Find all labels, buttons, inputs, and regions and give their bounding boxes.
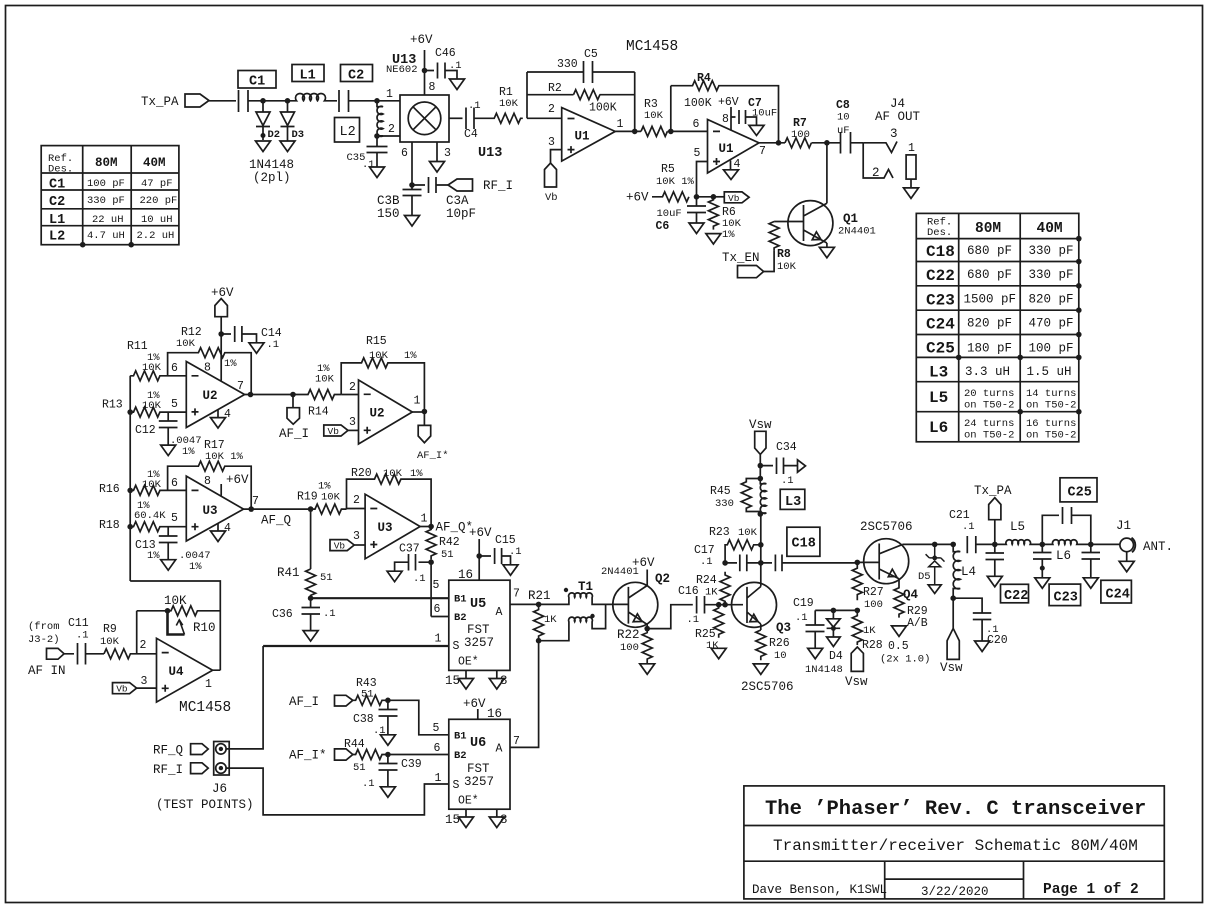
capacitor C22 [986,544,1005,576]
net Vb pointer at U1a [545,163,558,204]
svg-text:R4: R4 [697,72,711,85]
capacitor C46 [425,47,462,79]
resistor R43 [353,677,386,705]
net AF_I* pointer [417,412,449,463]
transformer T1 secondary [539,604,606,640]
svg-text:330 pF: 330 pF [87,195,125,207]
svg-text:6: 6 [434,603,441,616]
svg-text:1K: 1K [705,587,718,599]
svg-text:820 pF: 820 pF [967,317,1012,331]
capacitor C2 [339,90,377,112]
svg-text:Vb: Vb [334,541,346,552]
capacitor C5 value 330 [557,48,635,83]
svg-text:ANT.: ANT. [1143,540,1173,554]
op-amp U3 first half [171,476,259,541]
svg-text:C4: C4 [464,128,478,141]
wire AF_Q* column to U5 B2 [430,562,432,616]
svg-text:10uF: 10uF [752,108,777,120]
label 1N4148 (2pl) [249,158,294,185]
capacitor C19 [793,597,825,648]
svg-text:330: 330 [557,58,578,71]
svg-text:150: 150 [377,207,400,221]
svg-text:10K: 10K [321,492,341,504]
svg-text:5: 5 [171,512,178,525]
IC U13 NE602 mixer [386,53,449,142]
svg-text:.1: .1 [267,339,280,351]
svg-text:on T50-2: on T50-2 [1026,400,1076,412]
svg-text:+6V: +6V [626,191,649,205]
IC U5 FST3257 [433,579,520,670]
net Tx_PA above filter [974,484,1012,544]
svg-text:7: 7 [252,495,259,508]
connector J4 AF OUT jack [863,97,920,180]
wire R19 to U3b pin2 [347,508,366,510]
node L3 bottom [758,511,764,517]
svg-text:R23: R23 [709,526,730,539]
svg-text:B2: B2 [454,750,467,762]
svg-text:3: 3 [349,416,356,429]
svg-text:3257: 3257 [464,636,494,650]
svg-text:R27: R27 [863,586,884,599]
C22 box label [1001,584,1029,604]
svg-text:C39: C39 [401,758,422,771]
svg-text:1.5 uH: 1.5 uH [1027,365,1072,379]
svg-text:1K: 1K [544,614,557,626]
resistor R11 [127,340,186,381]
svg-text:3257: 3257 [464,775,494,789]
node Q3 base junctions [716,602,728,608]
svg-text:1: 1 [435,772,442,785]
svg-text:1: 1 [617,118,624,131]
svg-text:L3: L3 [785,495,801,510]
transistor Q4 2SC5706 [860,520,919,602]
ground below C3B [405,216,420,227]
svg-text:C38: C38 [353,713,374,726]
capacitor C4 [464,100,492,141]
wire feedback right vertical to output node [634,72,636,131]
inductor L1 [288,93,338,100]
L3 box label [780,489,805,510]
svg-text:5: 5 [694,147,701,160]
svg-text:(2x 1.0): (2x 1.0) [880,654,930,666]
svg-text:.1: .1 [362,159,375,171]
resistor R5 [626,163,695,205]
svg-text:10K: 10K [369,350,389,362]
svg-text:.1: .1 [687,614,700,626]
capacitor C37 [395,543,432,586]
net RF_Q tag [153,744,208,758]
svg-text:uF: uF [837,125,850,137]
svg-text:1%: 1% [404,350,417,362]
resistor R16 [99,469,186,496]
inductor L5 [995,520,1043,544]
svg-text:1: 1 [414,395,421,408]
wire Vb to U1 pin3 [551,150,562,163]
subtitle text [773,837,1138,855]
capacitor C3A [412,177,476,221]
label MC1458 [626,39,678,55]
svg-text:5: 5 [171,398,178,411]
node U1a output [615,129,641,135]
resistor R9 [100,623,157,659]
svg-text:10K: 10K [142,362,162,374]
svg-text:C18: C18 [926,243,955,261]
connector J6 test points [212,742,229,797]
wire feedback left vertical [526,72,528,118]
svg-text:100: 100 [620,642,639,654]
svg-text:10: 10 [837,112,850,124]
right reference table C18..L6 [916,213,1081,441]
ground below R26 [753,664,768,675]
svg-text:C23: C23 [926,292,955,310]
wire R44 node to U6 B2 [388,754,449,756]
resistor R6 [708,197,741,241]
svg-text:3.3 uH: 3.3 uH [965,365,1010,379]
svg-text:C11: C11 [68,617,89,630]
svg-text:180 pF: 180 pF [967,342,1012,356]
node L6/C24 junction [1088,542,1094,548]
svg-text:AF IN: AF IN [28,664,66,678]
wire Q2 collector to +6V [632,556,655,586]
svg-text:1N4148: 1N4148 [805,664,843,676]
svg-text:C1: C1 [49,178,65,193]
svg-text:U13: U13 [478,146,502,161]
svg-text:R19: R19 [297,491,318,504]
ground below J1 [1119,561,1134,572]
node R7/C8/Q1 junction [824,140,830,146]
node L5/L6/C23 junction [1040,542,1046,548]
svg-text:J3-2): J3-2) [28,634,60,646]
svg-text:8: 8 [204,475,211,488]
svg-text:AF_I*: AF_I* [417,450,449,462]
node U3b output AF_Q* [420,521,473,535]
svg-text:8: 8 [500,813,508,827]
author text [752,883,887,897]
svg-text:Q3: Q3 [776,621,791,635]
wire U1b pin5 down [697,162,708,197]
capacitor C21 [949,509,995,553]
svg-text:U3: U3 [378,521,393,535]
svg-text:+6V: +6V [469,526,492,540]
svg-text:.1: .1 [413,573,426,585]
ground below C19 [808,648,823,659]
svg-text:R16: R16 [99,483,120,496]
op-amp U2 second half [349,380,421,444]
svg-text:100 pF: 100 pF [1029,342,1074,356]
wire C8 node to Q1 collector [826,143,828,204]
svg-text:Q4: Q4 [903,588,919,602]
capacitor C3B [377,185,422,221]
svg-text:C46: C46 [435,47,456,60]
left reference table text [48,153,177,245]
svg-text:4.7 uH: 4.7 uH [87,230,125,242]
net Vb tag at R5/R6 node [713,192,749,204]
svg-text:10: 10 [774,650,787,662]
svg-text:1500 pF: 1500 pF [964,293,1017,307]
svg-text:U6: U6 [470,736,486,751]
svg-text:U3: U3 [203,504,218,518]
svg-text:B2: B2 [454,612,467,624]
svg-text:1%: 1% [722,229,735,241]
capacitor C18 [761,555,858,572]
wire feedback top branch [527,71,584,73]
svg-text:10pF: 10pF [446,207,476,221]
svg-text:A: A [496,606,503,619]
svg-text:Vb: Vb [328,426,340,437]
resistor R25 [695,605,724,652]
svg-text:.1: .1 [781,475,794,487]
svg-text:51: 51 [441,549,454,561]
capacitor C34 [760,441,797,487]
svg-text:Vsw: Vsw [845,675,868,689]
node R5/C6 junction [694,194,717,200]
node R21 bottom junction [536,638,542,644]
resistor R44 [344,738,386,774]
resistor R21 [528,589,557,641]
svg-text:C1: C1 [249,75,265,90]
wire bias node to C19/D4 [815,609,857,611]
svg-text:2: 2 [388,123,395,136]
ground below C15 [503,565,518,576]
svg-text:.1: .1 [362,778,375,790]
svg-text:NE602: NE602 [386,64,418,76]
svg-text:10K: 10K [383,468,403,480]
svg-text:15: 15 [445,813,460,827]
ground below U2a [211,410,226,428]
svg-text:R22: R22 [617,628,640,642]
wire R43 node to U6 B1 [388,700,449,735]
diode D3 [281,101,305,141]
node U2a output [245,392,296,398]
node R27/R28 junction [855,608,861,614]
svg-text:0.5: 0.5 [888,640,909,653]
svg-text:100 pF: 100 pF [87,178,125,190]
svg-text:.1: .1 [449,60,462,72]
svg-text:C6: C6 [656,220,670,233]
capacitor C7 [731,97,777,125]
svg-text:1: 1 [908,142,915,155]
net Vsw above L3 [749,418,772,479]
svg-text:RF_Q: RF_Q [153,744,183,758]
net Tx_PA input tag [141,94,209,109]
svg-text:2: 2 [548,103,555,116]
ground below R25 [711,648,726,659]
svg-text:10K: 10K [644,110,664,122]
svg-text:L6: L6 [1056,549,1071,563]
capacitor C8 [836,99,863,154]
svg-text:U2: U2 [370,407,385,421]
node +6V/C14 junction [218,331,224,337]
svg-text:3: 3 [890,127,898,141]
svg-text:+6V: +6V [718,96,739,109]
svg-text:1N4148: 1N4148 [249,158,294,172]
svg-text:Tx_PA: Tx_PA [141,95,179,109]
svg-text:AF_Q: AF_Q [261,514,291,528]
svg-text:AF_I: AF_I [279,427,309,441]
svg-text:Q2: Q2 [655,572,670,586]
node Vsw/C34 junction [758,463,764,469]
svg-text:.1: .1 [509,546,522,558]
resistor R42 [426,527,460,562]
svg-text:C23: C23 [1054,591,1078,606]
svg-text:C22: C22 [926,267,955,285]
svg-text:FST: FST [467,762,490,776]
svg-text:5: 5 [433,579,440,592]
svg-text:10K: 10K [738,527,758,539]
svg-text:10K: 10K [164,594,187,608]
net +6V pointer above U2 [211,286,234,334]
svg-text:R42: R42 [439,536,460,549]
node R43/C38 junction [385,698,391,704]
pin 8 stub of U3a [204,473,249,496]
ground below C20 [975,641,990,652]
capacitor C36 [272,598,336,630]
node U3a output AF_Q [244,506,314,527]
svg-text:2SC5706: 2SC5706 [741,680,794,694]
svg-text:R11: R11 [127,340,148,353]
node D5 junction [932,542,956,548]
svg-text:3: 3 [353,530,360,543]
svg-text:80M: 80M [975,221,1001,237]
svg-text:1K: 1K [863,625,876,637]
svg-text:RF_I: RF_I [153,763,183,777]
ground below C12 [161,445,176,456]
wire R1 to U1 pin2 [527,117,562,119]
svg-text:MC1458: MC1458 [626,39,678,55]
wire RF_I to U6 select [226,768,449,815]
node Q4 base junction [855,560,880,566]
wire Q4 collector out [903,543,935,545]
diode D4 [805,608,843,676]
svg-text:Page 1 of 2: Page 1 of 2 [1043,882,1139,898]
svg-text:S: S [453,779,460,792]
op-amp U3 second half [353,494,428,559]
capacitor C35 [347,136,388,171]
right reference table text [926,217,1076,442]
ground below C36 [303,631,318,642]
resistor R17 feedback [168,439,252,509]
svg-text:Transmitter/receiver Schematic: Transmitter/receiver Schematic 80M/40M [773,837,1138,855]
svg-text:U1: U1 [719,142,734,156]
svg-text:80M: 80M [95,156,118,170]
svg-text:R9: R9 [103,623,117,636]
svg-text:22 uH: 22 uH [92,214,124,226]
capacitor C20 [953,598,1008,647]
resistor R8 [769,222,797,274]
svg-text:40M: 40M [143,156,166,170]
svg-text:R24: R24 [696,574,717,587]
svg-text:330 pF: 330 pF [1029,244,1074,258]
svg-text:Vsw: Vsw [749,418,772,432]
ground below R6 [706,234,721,244]
svg-text:+6V: +6V [410,33,433,47]
svg-text:6: 6 [171,477,178,490]
wire left input rail [129,376,131,581]
transistor Q1 2N4401 [788,201,876,246]
ground below C35 [370,167,385,178]
resistor R13 [102,390,186,417]
op-amp U2 first half [171,362,245,428]
svg-text:+6V: +6V [463,697,486,711]
svg-text:1%: 1% [224,358,237,370]
svg-text:10K: 10K [315,374,335,386]
capacitor C39 [362,755,422,791]
svg-text:100K: 100K [589,102,617,115]
svg-text:3: 3 [548,136,555,149]
wire R14 to U2b pin2 [341,394,358,396]
svg-text:R10: R10 [193,621,216,635]
svg-text:5: 5 [433,722,440,735]
ground below C6 [689,223,704,234]
svg-text:C8: C8 [836,99,850,112]
svg-text:820 pF: 820 pF [1029,293,1074,307]
svg-text:.1: .1 [700,556,713,568]
svg-text:Vb: Vb [545,192,558,204]
svg-text:L1: L1 [300,69,316,84]
svg-text:Dave Benson, K1SWL: Dave Benson, K1SWL [752,883,887,897]
label MC1458 at U4 [179,700,231,716]
svg-text:10K: 10K [100,636,120,648]
L2 box label [335,118,360,143]
svg-text:1%: 1% [189,561,202,573]
svg-text:10K 1%: 10K 1% [656,176,695,188]
transistor Q2 2N4401 [601,566,670,627]
svg-text:10K: 10K [176,338,196,350]
wire AF_Q node down to R41 [310,509,312,569]
title block frame [744,786,1164,899]
svg-text:Q1: Q1 [843,212,858,226]
inductor L2 [377,101,383,137]
svg-text:10K 1%: 10K 1% [205,451,244,463]
net +6V above U5 [458,526,492,582]
svg-text:C2: C2 [348,69,364,84]
svg-text:10K: 10K [142,400,162,412]
svg-text:R5: R5 [661,163,675,176]
svg-text:J4: J4 [890,97,905,111]
ground below C39 [380,787,395,798]
svg-text:10uF: 10uF [657,208,682,220]
potentiometer R10 10K [137,594,221,635]
svg-text:L5: L5 [1010,520,1025,534]
ground below R22 [640,664,655,675]
node R44/C39 junction [385,752,391,758]
svg-text:C24: C24 [926,316,955,334]
left reference table C1/C2/L1/L2 [41,146,179,248]
svg-text:S: S [453,640,460,653]
svg-text:2.2 uH: 2.2 uH [137,230,175,242]
resistor R7 [785,117,840,148]
svg-text:R28: R28 [862,639,883,652]
svg-text:+6V: +6V [211,286,234,300]
net Tx_EN tag [722,251,764,278]
svg-text:C12: C12 [135,424,156,437]
resistor R41 [277,566,333,598]
svg-text:10K: 10K [499,98,519,110]
svg-text:2N4401: 2N4401 [838,226,876,238]
svg-text:C19: C19 [793,597,814,610]
svg-text:R21: R21 [528,589,551,603]
svg-text:C36: C36 [272,608,293,621]
pin 8 ground of U6 [489,809,507,827]
node C21/L5/C22 junction [992,542,998,548]
op-amp U1 first half [548,103,624,161]
svg-text:Des.: Des. [48,164,73,176]
svg-text:C34: C34 [776,441,797,454]
capacitor C12 [135,412,202,458]
capacitor C14 [221,326,282,351]
svg-text:RF_I: RF_I [483,179,513,193]
resistor R15 feedback [341,335,424,412]
